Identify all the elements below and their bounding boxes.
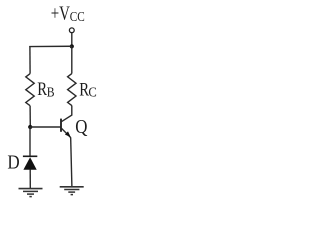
svg-text:Q: Q bbox=[75, 116, 88, 138]
ground left bbox=[19, 189, 43, 197]
ground right bbox=[60, 187, 84, 195]
node +VCC label bbox=[51, 3, 85, 25]
wire diode to left ground bbox=[29, 170, 31, 189]
diode D cathode bar bbox=[23, 155, 37, 157]
label RB bbox=[37, 79, 54, 100]
svg-text:D: D bbox=[7, 152, 19, 174]
resistor RB bbox=[26, 74, 34, 106]
wire base from node to transistor bbox=[30, 126, 60, 128]
label RC bbox=[79, 79, 97, 100]
wire top horizontal rail bbox=[29, 45, 72, 47]
wire from VCC terminal to top rail bbox=[71, 33, 73, 47]
junction dot at base node bbox=[28, 125, 32, 129]
terminal +VCC open circle bbox=[69, 28, 74, 33]
resistor RC bbox=[68, 74, 76, 106]
wire base node down to diode bbox=[29, 127, 31, 156]
transistor Q collector lead bbox=[61, 106, 71, 122]
wire RB to base node bbox=[29, 106, 31, 127]
transistor Q base bar bbox=[60, 119, 62, 132]
transistor Q emitter lead bbox=[61, 128, 70, 139]
svg-text:C: C bbox=[88, 84, 96, 99]
svg-text:+V: +V bbox=[51, 3, 71, 25]
wire right rail from junction to RC bbox=[71, 46, 73, 73]
wire emitter to right ground bbox=[71, 139, 72, 187]
svg-text:CC: CC bbox=[70, 9, 85, 24]
svg-text:B: B bbox=[47, 85, 55, 100]
diode D triangle bbox=[23, 157, 36, 170]
junction dot at top rail bbox=[70, 44, 74, 48]
transistor Q emitter arrowhead bbox=[65, 131, 71, 137]
wire left rail down to RB bbox=[29, 46, 31, 74]
